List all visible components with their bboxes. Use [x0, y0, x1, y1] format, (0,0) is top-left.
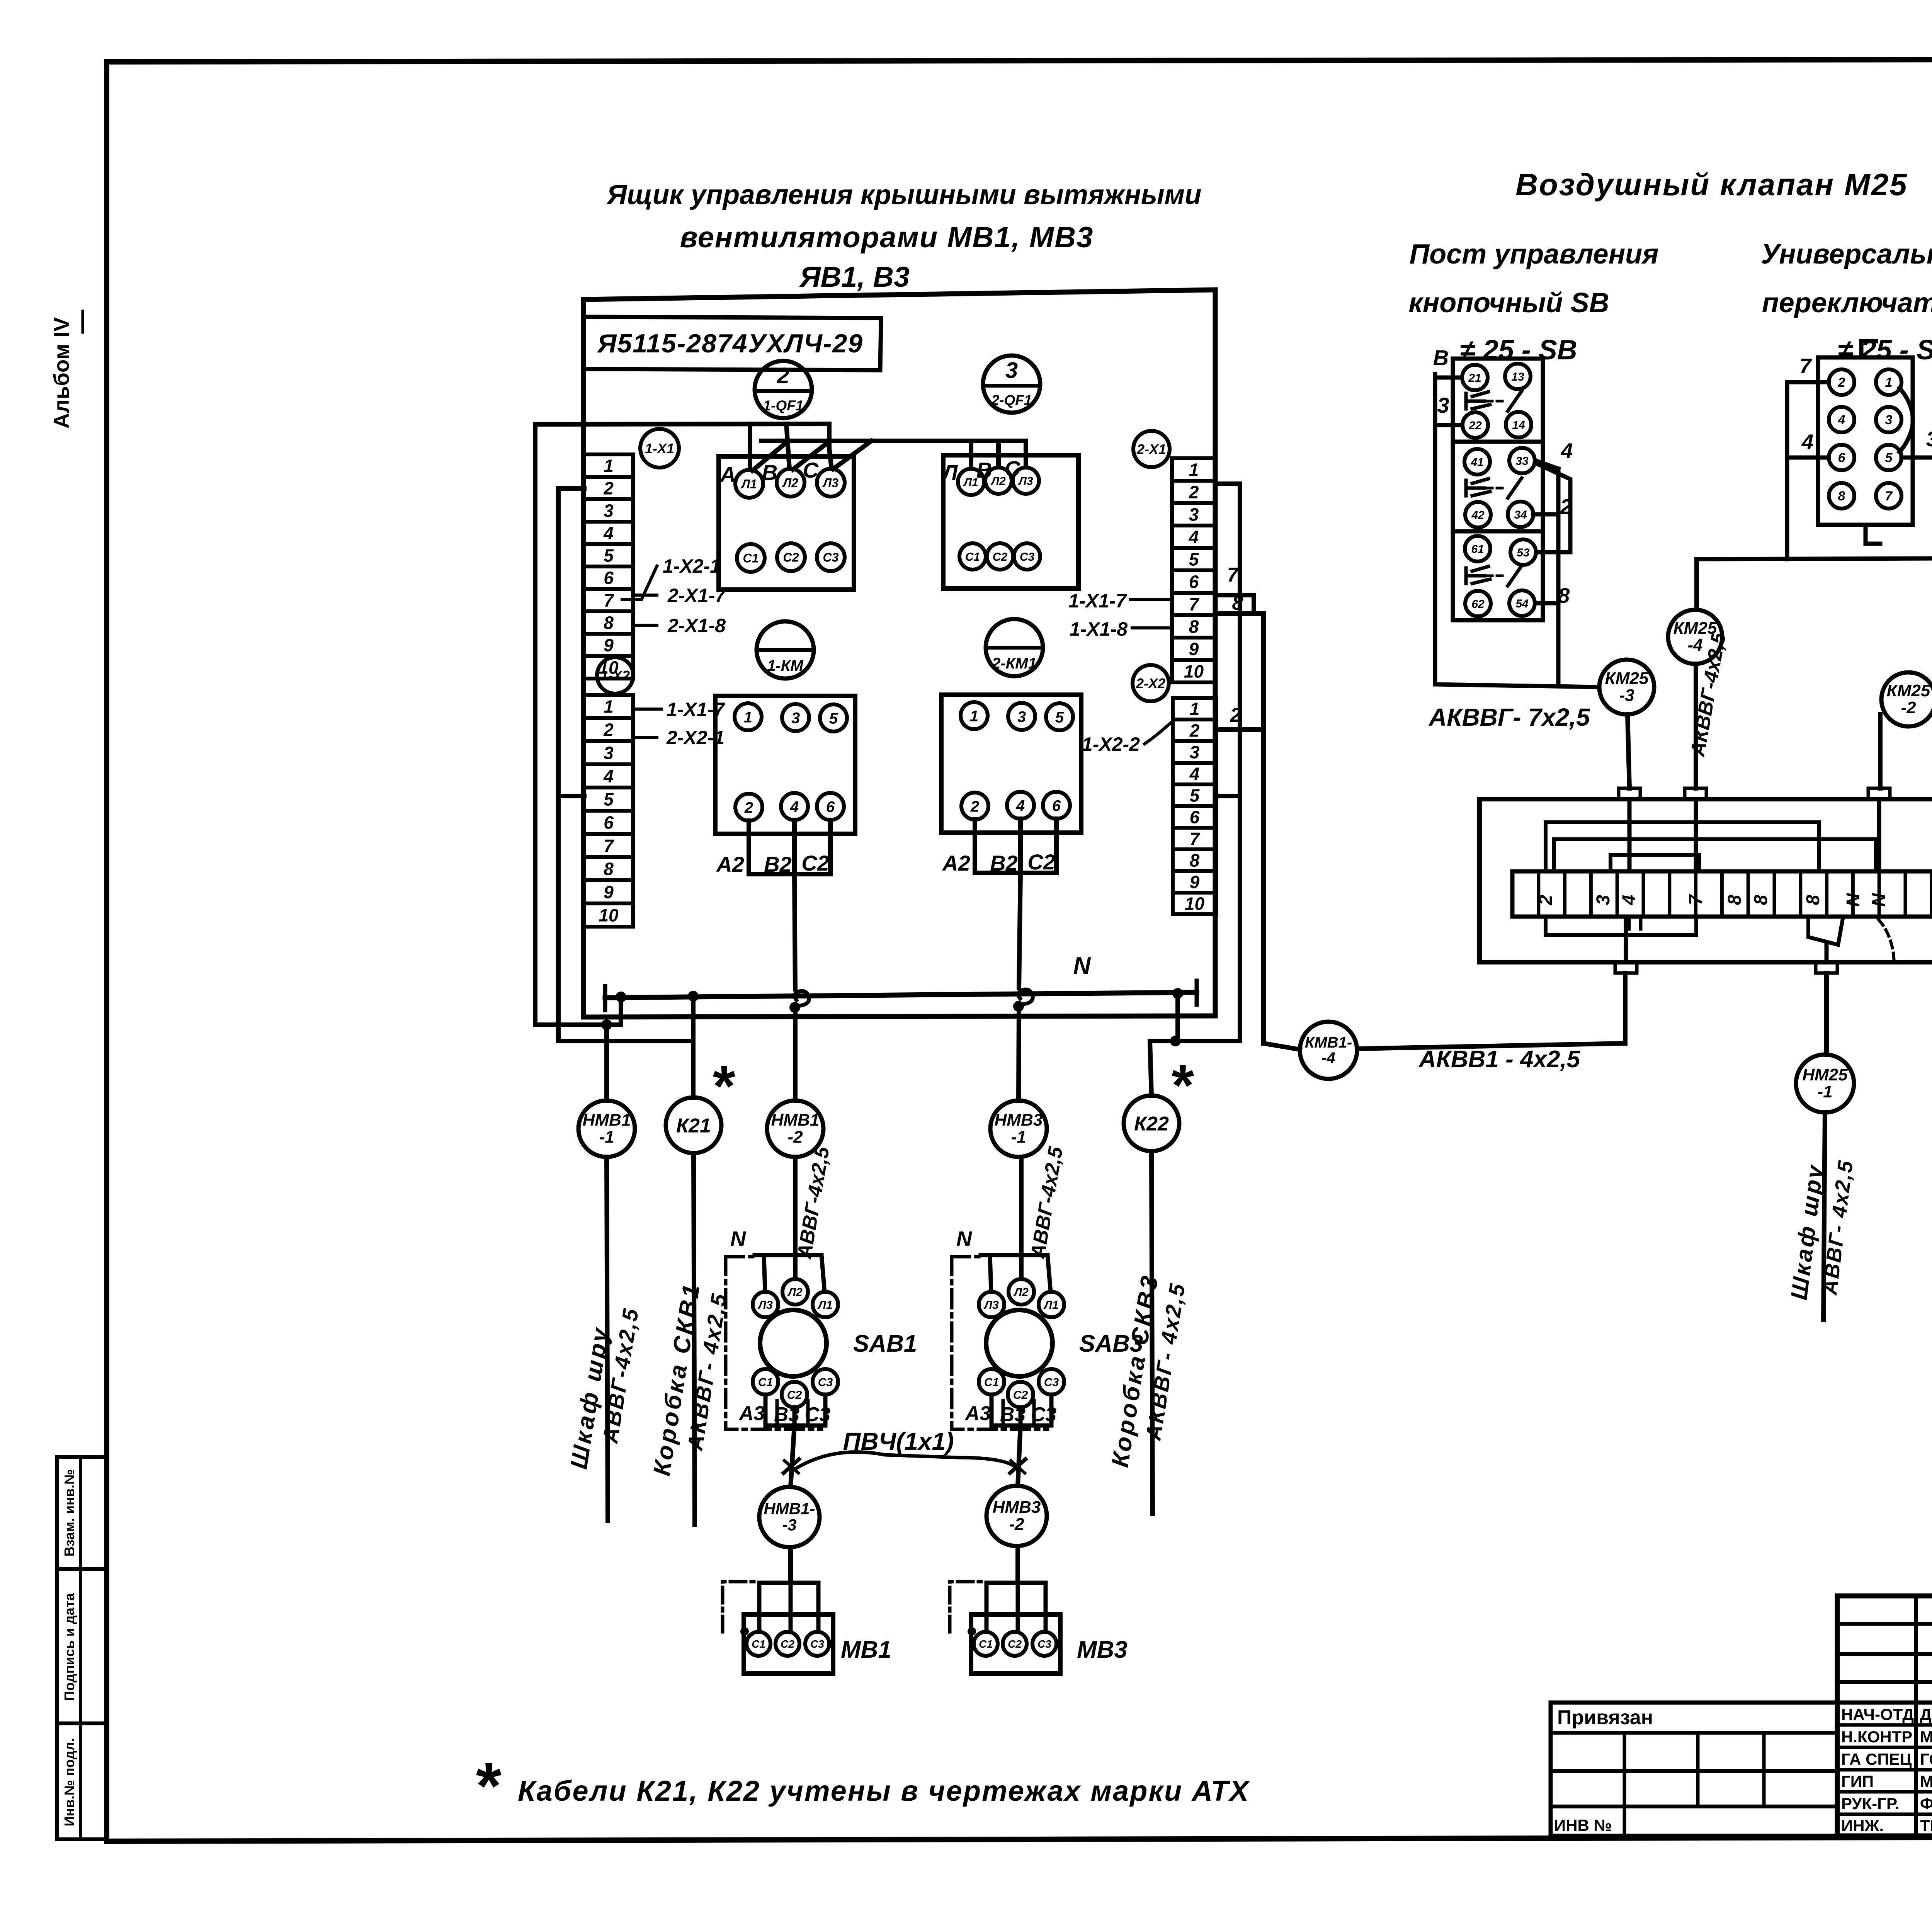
- svg-text:1: 1: [1189, 460, 1199, 480]
- svg-text:2-Х1-7: 2-Х1-7: [667, 585, 726, 606]
- svg-text:С3: С3: [810, 1638, 824, 1650]
- svg-text:*: *: [711, 1053, 736, 1118]
- svg-text:N: N: [956, 1226, 973, 1251]
- svg-text:3: 3: [1437, 393, 1449, 417]
- wire: КМ25-4 lug entry: [1694, 799, 1698, 871]
- svg-text:МВ1: МВ1: [841, 1636, 891, 1663]
- svg-text:А2: А2: [942, 851, 970, 875]
- svg-text:8: 8: [1838, 489, 1845, 503]
- wire: outputs А3 В3 С3 of SAB3: [964, 1395, 1057, 1426]
- svg-text:С3: С3: [1020, 551, 1035, 563]
- svg-text:В3: В3: [1000, 1403, 1026, 1426]
- cable marker НМВ1-1: [578, 1101, 635, 1521]
- label circle 1-X2: [597, 657, 633, 694]
- bottom-left stamp boxes with rotated captions: [57, 1457, 107, 1839]
- svg-text:С3: С3: [805, 1403, 831, 1426]
- svg-text:≠ 25 - SА: ≠ 25 - SА: [1838, 335, 1932, 366]
- svg-text:54: 54: [1515, 597, 1529, 610]
- wire: SA terminals 7 and 4 to left rail: [1787, 354, 1829, 559]
- circuit breaker 2-QF1 block: [941, 455, 1078, 589]
- svg-text:8: 8: [1232, 592, 1243, 614]
- svg-text:2: 2: [1189, 482, 1199, 502]
- svg-text:7: 7: [1189, 594, 1200, 614]
- wire: КМ25-3 lug entry: [1628, 799, 1632, 871]
- label circle 2-X1: [1133, 431, 1170, 467]
- svg-text:В2: В2: [764, 852, 792, 876]
- junction box СК25 outline: [1480, 799, 1932, 962]
- universal switch SA block: [1818, 341, 1913, 544]
- svg-text:Пост управления: Пост управления: [1409, 239, 1658, 270]
- svg-text:-2: -2: [1009, 1515, 1024, 1534]
- svg-text:3: 3: [791, 709, 800, 726]
- svg-text:АКВВ1 - 4х2,5: АКВВ1 - 4х2,5: [1418, 1046, 1581, 1073]
- wire: 2-КМ1 outputs merge А2 В2 С2: [942, 819, 1056, 875]
- cable marker НМВ3-1: [990, 1101, 1047, 1157]
- svg-text:-2: -2: [787, 1128, 803, 1146]
- junction box dash-dot outline for SAB1: [726, 1257, 821, 1429]
- svg-text:1-Х2-1: 1-Х2-1: [663, 555, 721, 577]
- svg-text:РУК-ГР.: РУК-ГР.: [1841, 1795, 1899, 1813]
- svg-text:9: 9: [1189, 639, 1199, 659]
- svg-text:1-Х1-7: 1-Х1-7: [1068, 590, 1127, 612]
- svg-text:АКВВГ- 7х2,5: АКВВГ- 7х2,5: [1428, 703, 1590, 731]
- svg-text:ФЕДОРОВА: ФЕДОРОВА: [1920, 1795, 1932, 1813]
- svg-text:8: 8: [1558, 583, 1570, 607]
- svg-text:6: 6: [1052, 797, 1061, 814]
- svg-text:10: 10: [599, 905, 619, 925]
- svg-text:С1: С1: [979, 1638, 993, 1650]
- svg-text:Ящик управления крышными вытяж: Ящик управления крышными вытяжными: [606, 180, 1202, 210]
- motor terminal box МВ1: [744, 1614, 891, 1674]
- svg-text:2: 2: [603, 720, 614, 740]
- svg-text:7: 7: [1799, 354, 1812, 378]
- svg-text:5: 5: [1885, 451, 1893, 465]
- svg-text:14: 14: [1512, 419, 1525, 432]
- svg-text:ГА СПЕЦ: ГА СПЕЦ: [1841, 1750, 1912, 1768]
- svg-text:С2: С2: [1013, 1389, 1028, 1402]
- svg-text:8: 8: [604, 859, 614, 879]
- svg-text:Л3: Л3: [983, 1299, 999, 1311]
- svg-text:61: 61: [1471, 543, 1484, 556]
- svg-text:ГИП: ГИП: [1841, 1772, 1874, 1791]
- svg-text:Л1: Л1: [817, 1299, 832, 1311]
- svg-text:-1: -1: [1011, 1128, 1026, 1146]
- svg-text:9: 9: [604, 635, 614, 655]
- svg-text:Взам. инв.№: Взам. инв.№: [61, 1469, 77, 1556]
- svg-text:7: 7: [1686, 894, 1706, 905]
- svg-text:4: 4: [1189, 764, 1200, 784]
- cable marker КМ25-3: [1599, 660, 1654, 788]
- svg-text:К21: К21: [676, 1115, 711, 1137]
- svg-text:*: *: [473, 1749, 502, 1823]
- svg-text:6: 6: [604, 813, 614, 833]
- svg-text:SAB1: SAB1: [853, 1330, 917, 1357]
- svg-text:-3: -3: [1619, 686, 1634, 705]
- svg-text:41: 41: [1470, 456, 1483, 469]
- svg-text:НАЧ-ОТД.: НАЧ-ОТД.: [1841, 1705, 1918, 1723]
- svg-text:С2: С2: [1008, 1638, 1022, 1650]
- svg-text:С: С: [1005, 456, 1021, 481]
- svg-text:1: 1: [1885, 375, 1893, 390]
- svg-text:1-QF1: 1-QF1: [763, 398, 804, 413]
- svg-text:N: N: [730, 1226, 747, 1251]
- wire: SA bottom collector to КМ25-4: [1697, 558, 1932, 559]
- svg-text:НМ25: НМ25: [1802, 1065, 1848, 1084]
- svg-text:3: 3: [604, 501, 614, 521]
- svg-text:1: 1: [604, 456, 614, 476]
- svg-text:2-Х1-8: 2-Х1-8: [667, 615, 726, 636]
- svg-text:2-QF1: 2-QF1: [991, 392, 1032, 408]
- type label box Я5115-2874УХЛЧ-29: [583, 317, 881, 370]
- svg-text:1: 1: [1190, 699, 1200, 719]
- terminal strip 2-X2 (cells 1-10): [1173, 698, 1216, 914]
- terminal strip 1-X2 (cells 1-10): [584, 695, 633, 927]
- svg-text:9: 9: [1190, 872, 1200, 892]
- svg-text:В: В: [1433, 345, 1449, 370]
- contactor circle 2-КМ1: [986, 619, 1043, 676]
- svg-text:-3: -3: [782, 1516, 796, 1534]
- svg-text:5: 5: [1190, 786, 1200, 806]
- svg-text:-1: -1: [1817, 1082, 1832, 1101]
- svg-text:НМВ1-: НМВ1-: [764, 1499, 815, 1517]
- wire: SB cable bracket down to КМ25-3: [1435, 374, 1599, 687]
- svg-text:МВ3: МВ3: [1077, 1636, 1128, 1663]
- svg-text:Привязан: Привязан: [1557, 1706, 1653, 1729]
- wire: cable split into Л1 Л2 Л3 at SAB3: [981, 1157, 1051, 1292]
- svg-text:МОСЕЕНКО: МОСЕЕНКО: [1920, 1728, 1932, 1746]
- wire: bottom lug to НМ25-1: [1825, 945, 1829, 1055]
- svg-text:6: 6: [826, 798, 835, 815]
- svg-text:7: 7: [604, 836, 614, 856]
- svg-text:SAB3: SAB3: [1079, 1330, 1143, 1357]
- cross-reference labels near 1-X2: [633, 699, 725, 748]
- circuit breaker 1-QF1 block: [719, 456, 854, 590]
- svg-text:4: 4: [790, 798, 799, 815]
- svg-text:5: 5: [1189, 549, 1199, 570]
- svg-text:13: 13: [1511, 371, 1524, 383]
- cable marker НМВ3-2: [986, 1486, 1047, 1583]
- svg-text:1: 1: [604, 697, 614, 717]
- svg-text:2-Х2: 2-Х2: [1136, 675, 1165, 691]
- svg-text:7: 7: [1190, 829, 1201, 849]
- destination label Коробка СКВ1 / АКВВГ-4х2,5 for К21: [648, 1281, 731, 1478]
- svg-text:Подпись и дата: Подпись и дата: [61, 1593, 77, 1701]
- svg-text:42: 42: [1471, 509, 1485, 522]
- svg-text:6: 6: [1838, 451, 1846, 465]
- motor terminal box МВ3: [971, 1614, 1128, 1674]
- svg-text:10: 10: [1185, 894, 1205, 914]
- wire: 2-X1 cells 7/8 loop and riser V3 to КМВ1-4: [1216, 564, 1300, 1050]
- title: Пост управления кнопочный SB ≠25-SB: [1408, 239, 1658, 366]
- wire: SA arc jumper 1-5: [1900, 388, 1913, 452]
- svg-text:С3: С3: [818, 1376, 833, 1389]
- svg-text:10: 10: [1184, 662, 1204, 682]
- internal jumpers in СК25: [1546, 822, 1894, 963]
- wire: supply riser A from НМВ1-1 to QF bus: [535, 424, 621, 1101]
- svg-text:4: 4: [603, 766, 614, 786]
- svg-text:2: 2: [1536, 895, 1556, 905]
- svg-text:ДАНИЛОВ: ДАНИЛОВ: [1920, 1705, 1932, 1723]
- svg-text:С1: С1: [752, 1638, 765, 1650]
- svg-text:А: А: [719, 462, 736, 486]
- main title block (штамп): [1837, 1596, 1932, 1839]
- contactor 1-КМ block: [715, 696, 855, 834]
- wire: cable split to motor МВ1: [759, 1583, 818, 1632]
- svg-text:7: 7: [604, 590, 614, 611]
- cable marker К22 with asterisk: [1124, 1053, 1194, 1514]
- control box ЯВ1 outline: [583, 290, 1215, 1017]
- svg-text:2: 2: [777, 363, 789, 388]
- svg-text:2: 2: [1230, 704, 1242, 726]
- destination label Шкаф шру / АВВГ-4х2,5 for НМВ1-1: [565, 1306, 643, 1471]
- svg-text:N: N: [1073, 953, 1091, 979]
- svg-text:ИНВ №: ИНВ №: [1554, 1816, 1612, 1834]
- dash-dot marker at МВ3: [950, 1582, 986, 1636]
- svg-text:6: 6: [1189, 572, 1199, 592]
- svg-text:1-Х2: 1-Х2: [600, 668, 630, 684]
- cable marker НМВ1-3: [759, 1487, 820, 1583]
- svg-text:Л2: Л2: [1013, 1286, 1029, 1299]
- svg-text:С1: С1: [965, 551, 980, 563]
- svg-text:Л1: Л1: [1043, 1299, 1058, 1311]
- svg-text:Л1: Л1: [963, 476, 978, 489]
- svg-text:34: 34: [1514, 509, 1527, 521]
- svg-text:5: 5: [604, 789, 614, 810]
- contactor 2-КМ1 block: [941, 695, 1081, 833]
- svg-text:6: 6: [604, 568, 614, 588]
- svg-text:Л3: Л3: [822, 476, 838, 490]
- svg-text:8: 8: [1190, 850, 1200, 871]
- svg-text:53: 53: [1517, 546, 1530, 559]
- neutral bus N inside box: [605, 953, 1197, 1010]
- svg-text:3: 3: [1593, 895, 1614, 905]
- push-button post SB block: [1453, 359, 1543, 620]
- svg-text:2-КМ1: 2-КМ1: [992, 655, 1037, 672]
- svg-text:N: N: [1843, 893, 1864, 907]
- svg-text:Кабели К21, К22 учтены в: Кабели К21, К22 учтены в чертежах марки …: [518, 1775, 1250, 1807]
- svg-text:С3: С3: [823, 551, 839, 565]
- svg-text:Универсальный: Универсальный: [1761, 239, 1932, 270]
- svg-text:4: 4: [1189, 527, 1199, 547]
- svg-text:Я5115-2874УХЛЧ-29: Я5115-2874УХЛЧ-29: [597, 329, 863, 358]
- svg-text:В: В: [762, 460, 777, 485]
- terminal strip 1-X1 (cells 1-10): [584, 454, 633, 679]
- svg-text:9: 9: [604, 882, 614, 902]
- wire: V1 from 2-X1:2 to 2-X2:5 and N junction: [1150, 484, 1240, 1095]
- svg-text:НМВ3: НМВ3: [993, 1498, 1041, 1517]
- label circle 1-X1: [640, 429, 679, 468]
- left margin vertical label Альбом IV: [49, 311, 83, 429]
- svg-text:5: 5: [604, 546, 614, 566]
- svg-text:62: 62: [1471, 598, 1485, 611]
- svg-text:Л1: Л1: [741, 477, 757, 491]
- svg-text:8: 8: [1725, 895, 1745, 905]
- wire: three-phase feed bus H1 to 1-QF1: [535, 424, 832, 469]
- svg-text:3: 3: [1190, 742, 1200, 762]
- svg-text:1: 1: [744, 709, 752, 726]
- wire: SAB1 to НМВ1-3: [784, 1425, 799, 1487]
- svg-text:*: *: [1169, 1053, 1194, 1118]
- svg-text:3: 3: [1926, 427, 1932, 451]
- svg-text:4: 4: [1619, 895, 1639, 906]
- bound table Привязан: [1551, 1703, 1837, 1836]
- title: Ящик управления крышными вытяжными вентиляторами МВ1, МВ3 ЯВ1, В3: [606, 180, 1202, 293]
- svg-text:С3: С3: [1044, 1376, 1059, 1389]
- svg-text:5: 5: [1055, 709, 1064, 726]
- svg-text:7: 7: [1885, 489, 1893, 503]
- svg-text:Л3: Л3: [757, 1299, 773, 1311]
- wire: В and 3 feeds to SB: [1433, 345, 1461, 425]
- wire: МВ1 cable core down from 1-КМ через N-шину: [789, 874, 809, 1101]
- svg-text:1-Х1-7: 1-Х1-7: [667, 699, 725, 720]
- svg-text:5: 5: [829, 710, 838, 727]
- svg-text:2-Х1: 2-Х1: [1136, 441, 1166, 457]
- svg-text:В: В: [976, 458, 992, 482]
- svg-text:НМВ1: НМВ1: [583, 1111, 631, 1129]
- svg-text:7: 7: [1227, 564, 1239, 586]
- svg-text:3: 3: [1885, 413, 1893, 427]
- destination label Коробка СКВ3 / АКВВГ-4х2,5 for К22: [1107, 1272, 1190, 1469]
- svg-text:6: 6: [1190, 807, 1200, 827]
- cross-reference labels near 2-X1 cells 7/8: [1068, 590, 1172, 640]
- svg-text:А2: А2: [716, 852, 744, 876]
- svg-text:ИНЖ.: ИНЖ.: [1841, 1817, 1884, 1835]
- wire: SA terminal 3 right rail: [1901, 427, 1932, 558]
- svg-text:1-Х1-8: 1-Х1-8: [1070, 618, 1128, 640]
- svg-text:3: 3: [604, 743, 614, 763]
- junction box dash-dot outline for SAB3: [952, 1257, 1048, 1429]
- wire: riser B 1-X1:2 / 1-X2:5 down to К21: [558, 488, 693, 1097]
- svg-text:Л: Л: [941, 460, 958, 485]
- cable note ПВЧ(1х1) with leader: [796, 1427, 1016, 1468]
- svg-text:4: 4: [1838, 413, 1845, 427]
- svg-text:ЯВ1, В3: ЯВ1, В3: [799, 261, 910, 293]
- svg-text:Л2: Л2: [782, 476, 798, 490]
- svg-text:Л3: Л3: [1018, 475, 1033, 488]
- wire: МВ3 cable core down from 2-КМ1 через N-шину: [1013, 873, 1033, 1101]
- svg-text:НМВ1: НМВ1: [771, 1111, 820, 1129]
- svg-text:вентиляторами МВ1, МВ3: вентиляторами МВ1, МВ3: [680, 221, 1094, 254]
- svg-text:1-Х1: 1-Х1: [645, 441, 674, 456]
- svg-text:-4: -4: [1321, 1050, 1335, 1067]
- cable gland lugs on СК25: [1615, 788, 1890, 973]
- svg-text:ГОЛЬЦМАН: ГОЛЬЦМАН: [1920, 1750, 1932, 1768]
- svg-text:4: 4: [1016, 797, 1025, 814]
- svg-text:4: 4: [603, 523, 614, 543]
- svg-text:Инв.№ подл.: Инв.№ подл.: [61, 1738, 77, 1827]
- terminal strip 2-X1 (cells 1-10): [1172, 458, 1216, 682]
- destination label Шкаф шру / АВВГ-4х2,5 for НМ25-1: [1786, 1158, 1858, 1301]
- wire: jumper 33-53: [1536, 463, 1570, 552]
- svg-text:ТЕЧАС: ТЕЧАС: [1920, 1817, 1932, 1835]
- wire: cable split to motor МВ3: [986, 1583, 1046, 1632]
- feeder circle 3 / 2-QF1: [983, 356, 1040, 413]
- svg-text:С1: С1: [743, 551, 759, 565]
- svg-text:2: 2: [1189, 721, 1200, 741]
- svg-text:С2: С2: [787, 1389, 802, 1402]
- svg-text:КМ25: КМ25: [1605, 669, 1649, 688]
- svg-text:Л2: Л2: [990, 475, 1006, 488]
- cross-reference label 1-Х2-2 near 2-X2: [1082, 721, 1173, 755]
- svg-text:1-Х2-2: 1-Х2-2: [1082, 733, 1140, 755]
- svg-text:Л2: Л2: [787, 1286, 803, 1299]
- svg-text:С1: С1: [758, 1376, 773, 1389]
- svg-text:С3: С3: [1037, 1638, 1051, 1650]
- svg-text:N: N: [1869, 893, 1889, 907]
- svg-text:1-КМ: 1-КМ: [767, 657, 804, 674]
- svg-text:3: 3: [1017, 708, 1026, 725]
- svg-text:3: 3: [1005, 358, 1018, 383]
- svg-text:В2: В2: [990, 851, 1018, 875]
- wire: КМ25-2 lug entry: [1877, 799, 1881, 871]
- svg-text:4: 4: [1561, 439, 1573, 463]
- svg-text:4: 4: [1801, 430, 1814, 454]
- selector switch SAB3: [979, 1279, 1143, 1407]
- svg-text:С2: С2: [993, 551, 1008, 563]
- svg-text:-4: -4: [1687, 636, 1702, 655]
- svg-text:8: 8: [604, 613, 614, 633]
- dash-dot marker at МВ1: [723, 1582, 759, 1636]
- wire: phase tap bus H2 to 2-QF1: [752, 441, 1026, 471]
- svg-text:8: 8: [1751, 895, 1771, 905]
- svg-text:8: 8: [1803, 895, 1823, 905]
- svg-text:-2: -2: [1901, 698, 1916, 717]
- svg-text:2: 2: [603, 478, 614, 498]
- cable marker КМ25-4: [1668, 559, 1722, 788]
- cable marker НМВ1-2: [767, 1101, 823, 1157]
- svg-text:А3: А3: [964, 1402, 991, 1425]
- feeder circle 2 / 1-QF1: [755, 361, 812, 418]
- svg-text:К22: К22: [1134, 1113, 1169, 1135]
- svg-text:1: 1: [970, 708, 978, 725]
- cable marker КМ25-2: [1880, 672, 1932, 788]
- svg-text:КМВ1-: КМВ1-: [1305, 1034, 1352, 1051]
- svg-text:КМ25: КМ25: [1887, 681, 1930, 700]
- wire: КМВ1-4 to СК25 box: [1357, 973, 1625, 1049]
- selector switch SAB1: [753, 1279, 917, 1407]
- svg-text:МОСЕЕНКО: МОСЕЕНКО: [1920, 1772, 1932, 1791]
- svg-text:НМВ3: НМВ3: [995, 1111, 1043, 1129]
- svg-text:кнопочный SВ: кнопочный SВ: [1408, 287, 1609, 318]
- footnote: Кабели К21, К22 учтены в чертежах марки АТХ: [473, 1749, 1250, 1823]
- wire: SAB3 to НМВ3-2: [1010, 1425, 1026, 1486]
- push-button contact symbol: [1466, 566, 1522, 586]
- svg-text:2: 2: [970, 798, 979, 815]
- title: Универсальный переключатель ≠25-SA: [1761, 239, 1932, 366]
- svg-text:33: 33: [1515, 455, 1529, 468]
- svg-text:В3: В3: [774, 1403, 800, 1426]
- svg-text:≠ 25 - SВ: ≠ 25 - SВ: [1460, 335, 1577, 366]
- svg-text:21: 21: [1468, 372, 1481, 384]
- label circle 2-X2: [1133, 665, 1169, 701]
- wire: outputs А3 В3 С3 of SAB1: [738, 1395, 831, 1426]
- push-button contact symbol: [1466, 391, 1522, 411]
- cable marker К21 with asterisk: [666, 1053, 736, 1525]
- svg-text:С2: С2: [801, 851, 829, 875]
- svg-text:Альбом IV: Альбом IV: [49, 317, 73, 429]
- svg-text:С2: С2: [783, 551, 799, 565]
- wire: bottom lug to КМВ1-4 cable: [1624, 917, 1628, 962]
- svg-text:-1: -1: [599, 1128, 614, 1146]
- svg-text:2: 2: [1838, 375, 1845, 390]
- wire: SB contacts rail 4/2/8: [1534, 439, 1573, 684]
- svg-text:С3: С3: [1031, 1403, 1057, 1426]
- svg-text:3: 3: [1189, 505, 1199, 525]
- wire: cable split into Л1 Л2 Л3 at SAB1: [755, 1157, 825, 1292]
- svg-text:Н.КОНТР: Н.КОНТР: [1841, 1728, 1912, 1746]
- svg-text:переключатель: переключатель: [1762, 287, 1932, 318]
- wire: 1-КМ outputs merge А2 В2 С2: [716, 820, 830, 876]
